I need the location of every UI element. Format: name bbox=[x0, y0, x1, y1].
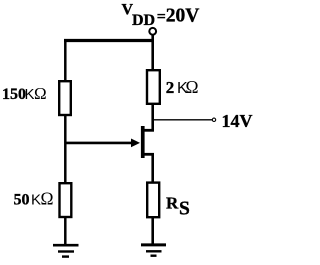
ground right bbox=[141, 245, 166, 256]
resistor R1 150K body bbox=[59, 81, 71, 115]
svg-text:R: R bbox=[166, 194, 179, 213]
wire right vertical from RS bottom to ground bbox=[151, 217, 154, 245]
transistor Q1 JFET channel bar bbox=[141, 126, 145, 158]
resistor R2 50K body bbox=[60, 183, 72, 217]
wire gate horizontal from left branch to JFET bbox=[65, 142, 133, 145]
label 2 KΩ bbox=[166, 77, 199, 97]
wire right vertical from rail to RD top bbox=[151, 41, 154, 71]
label 150KΩ bbox=[2, 84, 47, 103]
svg-text:Ω: Ω bbox=[41, 189, 54, 209]
node output terminal circle bbox=[212, 118, 215, 121]
ground left bbox=[53, 245, 79, 256]
svg-text:2: 2 bbox=[166, 78, 175, 97]
svg-text:DD: DD bbox=[132, 12, 155, 29]
svg-text:150: 150 bbox=[2, 86, 26, 103]
svg-text:14V: 14V bbox=[222, 111, 253, 131]
resistor RS body bbox=[147, 183, 159, 218]
wire right vertical from RD bottom to drain lead bbox=[151, 104, 154, 132]
svg-text:Ω: Ω bbox=[34, 84, 47, 103]
wire left vertical from rail to R1 top bbox=[64, 39, 67, 82]
wire left vertical from R1 bottom to R2 top bbox=[64, 115, 67, 184]
wire output to 14V terminal bbox=[154, 119, 212, 121]
label 50KΩ bbox=[14, 189, 54, 209]
label RS bbox=[166, 194, 190, 220]
wire left vertical from R2 bottom to ground bbox=[64, 217, 67, 245]
transistor Q1 drain lead bbox=[143, 129, 154, 132]
svg-text:20V: 20V bbox=[166, 6, 200, 27]
svg-text:K: K bbox=[31, 192, 41, 209]
wire top horizontal rail bbox=[64, 39, 154, 42]
svg-text:Ω: Ω bbox=[186, 77, 199, 97]
svg-text:=: = bbox=[157, 9, 166, 26]
svg-text:50: 50 bbox=[14, 192, 30, 209]
wire from VDD terminal down to top rail bbox=[151, 35, 154, 41]
resistor RD 2K body bbox=[147, 70, 160, 104]
svg-text:K: K bbox=[25, 86, 35, 103]
node VDD terminal circle bbox=[149, 28, 156, 35]
wire right vertical from source lead to RS top bbox=[151, 153, 154, 183]
transistor Q1 source lead bbox=[143, 153, 154, 156]
svg-text:S: S bbox=[179, 199, 190, 220]
label VDD = 20V bbox=[122, 2, 200, 29]
gate arrowhead of JFET Q1 bbox=[131, 139, 140, 148]
